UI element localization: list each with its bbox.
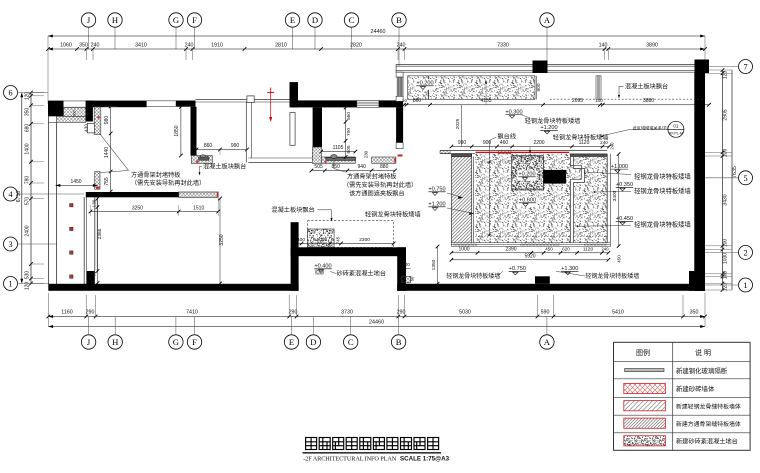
masonry hatch nub (191, 156, 212, 164)
svg-text:400: 400 (297, 237, 305, 243)
bayline leader vertical (488, 155, 490, 236)
big stipple floor (475, 154, 607, 243)
grid bubble H bottom (108, 335, 122, 349)
svg-text:450: 450 (617, 255, 622, 263)
svg-text:3730: 3730 (341, 309, 353, 315)
column A bottom (535, 276, 550, 284)
svg-text:轻钢龙骨块特板矮墙: 轻钢龙骨块特板矮墙 (365, 211, 421, 219)
window seat stipple band (429, 76, 536, 100)
svg-text:3880: 3880 (643, 98, 654, 104)
wall top band mid black 2 (379, 100, 403, 107)
red mark (196, 161, 198, 163)
svg-text:1120: 1120 (583, 246, 594, 252)
wall opening lines (147, 100, 176, 102)
svg-text:600: 600 (73, 110, 77, 116)
svg-text:2365: 2365 (97, 228, 103, 239)
grid bubble 2 right (739, 245, 753, 259)
grid bubble A bottom (540, 335, 554, 349)
svg-text:900: 900 (483, 140, 492, 146)
red section arrow (267, 92, 274, 94)
svg-text:2200: 2200 (533, 140, 544, 146)
legend row3 keel wall (624, 401, 666, 411)
svg-text:90: 90 (91, 271, 96, 277)
svg-text:F: F (192, 337, 197, 347)
svg-text:1910: 1910 (211, 42, 223, 48)
svg-text:1350: 1350 (431, 259, 437, 270)
svg-text:砂砖紊混凝土地台: 砂砖紊混凝土地台 (337, 269, 387, 277)
svg-text:H: H (112, 15, 118, 25)
svg-text:RF.PL-M: RF.PL-M (669, 131, 683, 135)
bottom band floor (451, 243, 610, 247)
svg-text:E: E (290, 15, 295, 25)
svg-text:新建轻钢龙骨缝特板墙体: 新建轻钢龙骨缝特板墙体 (676, 402, 741, 410)
svg-text:2400: 2400 (25, 225, 31, 236)
svg-text:240: 240 (610, 142, 615, 150)
svg-text:1450: 1450 (70, 179, 81, 185)
red mark (325, 161, 327, 163)
svg-text:5410: 5410 (612, 309, 624, 315)
svg-text:3430: 3430 (723, 194, 729, 205)
dimension 980/1440/755 (110, 106, 112, 191)
svg-text:（需先安装导轨再封此墙）: （需先安装导轨再封此墙） (343, 181, 417, 189)
window vertical strip (396, 72, 403, 77)
grid bubble F bottom (187, 335, 201, 349)
dimension 3250 1510 (91, 211, 219, 213)
dimension 1350 vertical (437, 247, 439, 284)
grid bubble H top (108, 13, 122, 27)
grid bubble G bottom (169, 335, 183, 349)
grid bubble F top (187, 13, 201, 27)
wall thin vertical small room (245, 102, 247, 163)
dimension 2025 vertical (461, 105, 463, 147)
svg-text:5030: 5030 (459, 309, 471, 315)
column grid A top (533, 61, 548, 74)
svg-text:B: B (396, 15, 402, 25)
svg-text:10: 10 (402, 98, 407, 103)
wall thin horiz small room (248, 157, 312, 159)
dimension 3250 vertical (219, 199, 221, 284)
wall outline jog (290, 113, 295, 146)
svg-text:A: A (544, 15, 551, 25)
partition top right (596, 76, 601, 99)
dimension 1850 (180, 107, 182, 156)
red bay line (476, 152, 570, 153)
svg-text:该方通图遮夹板飘台: 该方通图遮夹板飘台 (349, 189, 405, 197)
svg-text:说 明: 说 明 (695, 348, 711, 357)
hatch seg a (440, 151, 450, 154)
svg-text:130: 130 (91, 199, 96, 207)
opening lines above hatch (64, 100, 86, 102)
wall top band left A (86, 101, 147, 108)
svg-text:940: 940 (358, 164, 367, 170)
svg-text:2095: 2095 (572, 98, 583, 104)
svg-text:混凝土板块飘台: 混凝土板块飘台 (203, 162, 246, 170)
svg-text:230: 230 (364, 150, 369, 158)
svg-text:轻钢龙骨块特板矮墙: 轻钢龙骨块特板矮墙 (446, 272, 500, 280)
bay dashed outline (308, 221, 394, 248)
corridor wall lines (83, 197, 85, 284)
grid bubble 4 left (4, 187, 18, 201)
dimension chain bottom (48, 316, 705, 318)
dimension row top right (404, 104, 709, 106)
wall top band left B (176, 101, 196, 107)
svg-text:2810: 2810 (275, 42, 287, 48)
svg-text:1850: 1850 (174, 125, 180, 136)
grid bubble C bottom (344, 335, 358, 349)
dashed lines in floor (475, 161, 510, 163)
svg-text:290: 290 (86, 309, 95, 315)
title underline (303, 452, 442, 453)
wall pier (86, 101, 93, 122)
svg-text:4: 4 (8, 190, 12, 199)
svg-text:混凝土板块飘台: 混凝土板块飘台 (625, 82, 668, 90)
svg-text:240: 240 (600, 140, 608, 145)
facade lines top right (396, 63, 708, 65)
dimension bay 400 1050 745 2300 (297, 243, 394, 245)
svg-text:新建钢化玻璃隔断: 新建钢化玻璃隔断 (676, 366, 728, 375)
dimension total 24460 top (48, 35, 705, 37)
svg-text:880: 880 (380, 164, 389, 170)
dimension 3400 vertical (618, 154, 620, 246)
svg-text:图例: 图例 (636, 348, 650, 357)
svg-text:560: 560 (346, 112, 352, 120)
svg-text:2: 2 (743, 248, 747, 257)
svg-text:2300: 2300 (359, 237, 370, 243)
svg-text:620: 620 (562, 246, 570, 251)
svg-text:980: 980 (104, 116, 110, 125)
svg-text:2390: 2390 (505, 246, 516, 252)
svg-text:240: 240 (397, 42, 406, 48)
legend row1 glass symbol (625, 369, 664, 372)
legend table frame (614, 342, 751, 450)
svg-text:120: 120 (723, 71, 729, 80)
svg-text:H: H (112, 337, 118, 347)
svg-text:7635: 7635 (732, 166, 738, 178)
label fangtong mid (333, 161, 335, 169)
wall right vertical (694, 73, 705, 292)
svg-text:450: 450 (545, 246, 553, 251)
level +0.200 seat (415, 79, 434, 90)
stepped thin wall (570, 157, 584, 246)
grid bubble J top (81, 13, 95, 27)
svg-text:轻钢龙骨块特板矮墙: 轻钢龙骨块特板矮墙 (634, 186, 691, 195)
grid bubble 5 right (739, 171, 753, 185)
dimension total 24460 bottom (48, 326, 705, 328)
svg-text:570: 570 (25, 197, 31, 206)
low wall top lines (440, 150, 607, 152)
pilaster jog (247, 96, 254, 103)
svg-text:3400: 3400 (612, 190, 618, 201)
svg-text:120: 120 (25, 92, 31, 101)
column corner top right (695, 60, 710, 74)
svg-text:1400: 1400 (25, 143, 31, 154)
svg-text:1000: 1000 (458, 246, 469, 252)
dimension 5920 (451, 259, 608, 261)
svg-text:605: 605 (346, 145, 352, 153)
svg-text:700: 700 (346, 128, 352, 136)
svg-text:24460: 24460 (371, 29, 386, 35)
wall step vertical left (291, 222, 299, 291)
grid bubble B bottom (391, 335, 405, 349)
wall pier bottom corridor (87, 271, 95, 285)
dimension 1450 (56, 184, 98, 186)
dim arrow 2200 down (529, 147, 531, 153)
svg-text:1050: 1050 (316, 237, 327, 243)
dark cap right (570, 154, 607, 157)
dimension chain left (30, 93, 32, 284)
grid bubble E bottom (284, 335, 298, 349)
svg-text:方通骨架封堵特板: 方通骨架封堵特板 (347, 172, 397, 180)
column E top (290, 82, 299, 107)
grid bubble A top (540, 13, 554, 27)
wall bottom right (397, 284, 705, 291)
dimension 560 700 605 (345, 108, 347, 157)
door leaf (87, 123, 94, 132)
svg-text:5: 5 (743, 174, 747, 183)
svg-text:60: 60 (410, 276, 415, 281)
svg-text:590: 590 (541, 309, 550, 315)
wall stub outline below (396, 143, 403, 149)
svg-text:1060: 1060 (60, 42, 72, 48)
dimension chain top (48, 48, 705, 50)
leader line funnel (99, 133, 128, 171)
dimension chain right (722, 70, 724, 290)
masonry hatch band right (372, 157, 396, 163)
svg-text:B: B (396, 337, 402, 347)
svg-text:D: D (310, 337, 316, 347)
dimension row right room (451, 146, 609, 148)
wall vertical below window (396, 107, 403, 142)
svg-text:530: 530 (25, 271, 31, 280)
grid bubble E top (285, 13, 299, 27)
grid bubble D top (308, 13, 322, 27)
svg-text:方通骨架封堵特板: 方通骨架封堵特板 (131, 171, 181, 179)
wall interior vertical mid (313, 107, 322, 147)
svg-text:SCALE 1:75@A3: SCALE 1:75@A3 (400, 456, 450, 463)
black rect equip (543, 170, 566, 184)
svg-text:3890: 3890 (646, 42, 658, 48)
wall grid4 crosshatch 1510 (179, 192, 219, 197)
svg-text:混凝土板块飘台: 混凝土板块飘台 (271, 206, 314, 214)
svg-text:7: 7 (743, 62, 747, 71)
svg-text:新建砂砖紊混凝土地台: 新建砂砖紊混凝土地台 (676, 437, 738, 445)
svg-text:1160: 1160 (61, 309, 72, 315)
svg-text:2905: 2905 (723, 109, 729, 120)
svg-text:新建砂砖墙体: 新建砂砖墙体 (676, 384, 715, 393)
masonry hatch block top-left (64, 107, 86, 116)
svg-text:（需先安装导轨再封此墙）: （需先安装导轨再封此墙） (131, 179, 205, 187)
window seat cell 1 (408, 76, 429, 100)
svg-text:C: C (349, 15, 355, 25)
svg-text:1120: 1120 (579, 140, 590, 146)
svg-text:100: 100 (723, 271, 729, 280)
svg-text:140: 140 (599, 42, 608, 48)
callout circle 01 (668, 121, 684, 137)
dimension 1105 (321, 151, 355, 153)
svg-text:6: 6 (8, 88, 12, 97)
svg-text:100: 100 (402, 262, 410, 267)
svg-text:680: 680 (25, 124, 31, 133)
red mark end (217, 192, 219, 197)
svg-text:轻钢龙骨块特板矮墙: 轻钢龙骨块特板矮墙 (634, 219, 691, 228)
right boundary double line (606, 154, 608, 243)
corner right bottom (689, 271, 705, 291)
grid bubble 6 left (4, 86, 18, 100)
wall bottom left (48, 284, 298, 291)
svg-text:轻钢龙骨块特板矮墙: 轻钢龙骨块特板矮墙 (585, 272, 639, 280)
dashed bay line top right (550, 98, 704, 100)
grid bubble C top (344, 13, 358, 27)
wall top band mid black (291, 100, 357, 107)
dimension 505 850 940 880 (311, 170, 395, 172)
svg-text:990: 990 (231, 143, 240, 149)
wall grid4 black (86, 192, 179, 197)
svg-text:755: 755 (104, 177, 110, 186)
svg-text:350: 350 (25, 108, 31, 117)
grid bubble D bottom (306, 335, 320, 349)
svg-text:1510: 1510 (193, 205, 204, 211)
wall corner block top-left (48, 101, 64, 117)
dimension 130 2365 90 (97, 199, 99, 284)
svg-text:-2F ARCHITECTURAL INFO PLAN: -2F ARCHITECTURAL INFO PLAN (303, 455, 396, 462)
svg-text:290: 290 (289, 309, 298, 315)
wall thin mid top (196, 98, 291, 100)
masonry hatch L horizontal (321, 157, 355, 163)
svg-text:2025: 2025 (455, 118, 461, 129)
svg-text:G: G (173, 337, 179, 347)
left outer wall lines (48, 116, 50, 285)
hatch seg b (498, 151, 511, 154)
door track bar (199, 157, 210, 160)
svg-text:1: 1 (743, 281, 747, 290)
svg-text:F: F (192, 15, 197, 25)
bay stipple block (308, 229, 335, 247)
svg-text:900: 900 (536, 83, 542, 91)
svg-text:C: C (348, 337, 354, 347)
svg-text:7330: 7330 (497, 42, 509, 48)
svg-text:430: 430 (84, 124, 90, 132)
svg-text:新建方通骨架缝特板墙体: 新建方通骨架缝特板墙体 (676, 420, 741, 428)
svg-text:7410: 7410 (186, 309, 198, 315)
legend row4 fangtong wall (624, 418, 666, 428)
svg-text:G: G (173, 15, 179, 25)
grid bubble 3 left (4, 237, 18, 251)
grid bubble 7 right (739, 60, 753, 74)
svg-text:D: D (312, 15, 318, 25)
level +0.200 dense (517, 170, 536, 181)
dimension 860 990 (197, 149, 248, 151)
svg-text:745: 745 (335, 236, 340, 244)
wall step vertical right (397, 247, 406, 290)
svg-text:860: 860 (204, 143, 213, 149)
svg-text:2820: 2820 (350, 42, 362, 48)
svg-text:3250: 3250 (132, 205, 143, 211)
grid bubble B top (392, 13, 406, 27)
dense stipple square (512, 156, 544, 190)
svg-text:860: 860 (413, 98, 422, 104)
svg-text:5920: 5920 (524, 254, 535, 260)
wall step horizontal (291, 247, 406, 256)
grid bubble 1 right (739, 278, 753, 292)
grid bubble G top (169, 13, 183, 27)
svg-text:E: E (289, 337, 294, 347)
svg-text:1: 1 (8, 279, 12, 288)
wall vertical at G/F (191, 107, 197, 156)
hatch strip 755 (95, 172, 100, 190)
hatch block right of step (402, 276, 411, 283)
svg-text:3: 3 (8, 240, 12, 249)
masonry hatch band lower (56, 116, 85, 122)
svg-text:505: 505 (314, 164, 323, 170)
dimension row bottom right room (451, 252, 608, 254)
svg-text:290: 290 (397, 309, 406, 315)
svg-text:350: 350 (690, 309, 699, 315)
svg-text:780: 780 (25, 176, 31, 185)
svg-text:1030: 1030 (723, 253, 729, 264)
svg-text:3410: 3410 (135, 42, 147, 48)
svg-text:1105: 1105 (333, 145, 344, 151)
hatch strip door jamb 980 (94, 107, 101, 135)
dimension total 7635 right (731, 70, 733, 290)
keel wall diagonal strip (451, 157, 471, 246)
svg-text:24460: 24460 (369, 320, 384, 326)
window band mid (357, 100, 379, 107)
svg-text:3250: 3250 (219, 234, 225, 245)
leader 4155 up (485, 82, 487, 105)
legend row2 masonry (624, 383, 666, 393)
legend row5 concrete platform (624, 436, 666, 446)
svg-text:1440: 1440 (104, 147, 110, 158)
svg-text:460: 460 (500, 140, 509, 146)
dimension total 6710 left (21, 93, 23, 284)
svg-text:A: A (544, 337, 551, 347)
svg-text:350: 350 (79, 42, 88, 48)
red column markers corridor (70, 204, 73, 207)
svg-text:120: 120 (25, 282, 31, 291)
grid bubble 1 left (4, 277, 18, 291)
svg-text:100: 100 (595, 98, 603, 103)
grid bubble J bottom (81, 335, 95, 349)
svg-text:240: 240 (185, 42, 194, 48)
svg-text:990: 990 (458, 140, 467, 146)
dark cap over strip (451, 154, 471, 157)
svg-text:240: 240 (91, 42, 100, 48)
sliding door bar (326, 157, 356, 160)
title chinese (306, 438, 317, 450)
svg-text:轻钢龙骨块特板矮墙: 轻钢龙骨块特板矮墙 (634, 171, 691, 180)
arrows into hatch wall (458, 196, 463, 199)
svg-text:240: 240 (601, 246, 609, 251)
svg-text:轻钢龙骨块特板矮墙: 轻钢龙骨块特板矮墙 (525, 117, 581, 125)
masonry hatch L vertical (312, 147, 321, 163)
level +0.600 (518, 196, 537, 207)
svg-text:01: 01 (673, 124, 679, 129)
